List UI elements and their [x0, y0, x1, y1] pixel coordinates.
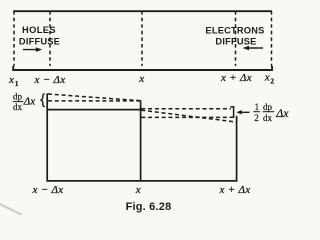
- arrow: electrons diffuse left: [243, 46, 263, 51]
- wire: dashed left edge x1: [13, 11, 15, 66]
- wire: solid top of left cell: [47, 109, 142, 111]
- svg-text:1: 1: [15, 79, 19, 88]
- svg-text:HOLES: HOLES: [22, 25, 56, 35]
- svg-text:x − Δx: x − Δx: [34, 74, 66, 86]
- svg-text:Δx: Δx: [275, 106, 289, 120]
- svg-text:DIFFUSE: DIFFUSE: [19, 37, 60, 47]
- arrow: holes diffuse right: [23, 47, 42, 52]
- wire: solid x-axis line: [13, 66, 272, 70]
- wire: solid top edge of bar: [13, 10, 272, 12]
- wire: dashed sloping line p(x) right segment: [141, 110, 236, 122]
- svg-text:Fig. 6.28: Fig. 6.28: [126, 201, 172, 213]
- svg-text:2: 2: [254, 113, 259, 123]
- bracket ] (right): [230, 107, 233, 117]
- svg-text:x: x: [138, 73, 144, 85]
- wire: dashed horizontal upper right segment: [141, 108, 231, 110]
- wire: dashed line at x: [141, 11, 143, 66]
- svg-text:Δx: Δx: [23, 96, 35, 108]
- svg-text:1: 1: [255, 102, 260, 112]
- wire: dashed horizontal lower right segment: [141, 116, 231, 118]
- svg-text:x − Δx: x − Δx: [32, 184, 64, 196]
- wire: solid right edge of cells: [236, 116, 238, 182]
- wire: solid left edge of cells: [46, 93, 48, 181]
- svg-text:dp: dp: [263, 102, 273, 112]
- wire: dashed right edge x2: [271, 11, 273, 66]
- svg-text:x: x: [264, 72, 270, 84]
- wire: dashed line at x+dx: [235, 11, 237, 66]
- svg-text:x: x: [135, 184, 141, 196]
- wire: dashed line at x-dx: [49, 11, 51, 66]
- svg-text:dp: dp: [13, 92, 23, 102]
- brace (left): [40, 94, 44, 107]
- svg-text:DIFFUSE: DIFFUSE: [215, 37, 256, 47]
- wire: solid middle divider at x: [140, 100, 142, 181]
- svg-text:x: x: [8, 74, 14, 86]
- svg-text:x + Δx: x + Δx: [219, 184, 251, 196]
- svg-text:x + Δx: x + Δx: [220, 72, 252, 84]
- svg-text:dx: dx: [263, 113, 273, 123]
- arrow: pointer to bracket: [236, 110, 249, 114]
- wire: dashed horizontal p(x) level left segment: [48, 100, 141, 102]
- svg-text:dx: dx: [13, 102, 23, 112]
- wire: dashed sloping line p(x) left segment: [48, 94, 141, 101]
- scan smudge bottom-left corner: [0, 204, 22, 215]
- svg-text:ELECTRONS: ELECTRONS: [205, 26, 264, 36]
- svg-text:2: 2: [270, 76, 274, 85]
- wire: solid bottom of cells: [47, 180, 238, 182]
